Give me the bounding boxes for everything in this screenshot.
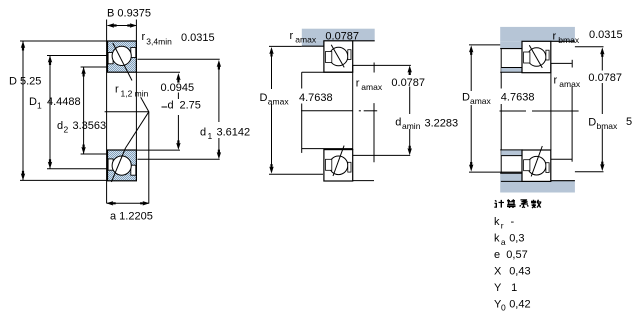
dimension d2 3.3563 (83, 67, 85, 154)
svg-text:3,4min: 3,4min (146, 37, 172, 47)
svg-text:D: D (462, 91, 470, 103)
shaft abutment block top-left (blue) (501, 68, 523, 73)
housing bore line bottom right (353, 180, 374, 182)
left face extension line (106, 20, 108, 204)
svg-text:0.0315: 0.0315 (181, 32, 215, 44)
centerline (middle diagram) (301, 110, 353, 112)
svg-text:4.4488: 4.4488 (47, 96, 81, 108)
dimension D 5.25 (22, 41, 24, 180)
right face / shoulder abutment line (352, 65, 354, 149)
svg-text:amax: amax (470, 96, 492, 106)
svg-text:5: 5 (626, 116, 632, 128)
middle bearing: bottom cross-section (324, 150, 353, 181)
svg-text:0.0787: 0.0787 (325, 30, 359, 42)
shaft shoulder (bottom, right side) (353, 154, 411, 156)
svg-text:0.0945: 0.0945 (161, 82, 195, 94)
svg-text:D: D (29, 96, 37, 108)
middle diagram: housing band (blue) (302, 29, 375, 41)
dimension a 1.2205 (148, 112, 150, 204)
dimension D_amax 4.7638 (right) (469, 44, 500, 46)
svg-text:bmax: bmax (597, 121, 619, 131)
svg-text:X: X (494, 266, 502, 278)
svg-text:0.0315: 0.0315 (589, 29, 623, 41)
shaft seat lines + left break edge (302, 71, 353, 73)
dimension d 2.75 (bore) (136, 71, 180, 73)
shaft shoulder (bottom right side) (551, 158, 572, 160)
svg-text:k: k (494, 216, 500, 228)
dimension B (width) (108, 25, 137, 27)
svg-text:amax: amax (559, 79, 581, 89)
svg-text:amax: amax (295, 35, 317, 45)
svg-text:0,57: 0,57 (506, 249, 527, 261)
right bearing: bottom cross-section (522, 150, 551, 181)
svg-text:d: d (168, 100, 174, 112)
svg-text:3.6142: 3.6142 (217, 127, 251, 139)
svg-text:a 1.2205: a 1.2205 (110, 211, 153, 223)
contact line (right bottom) (531, 146, 542, 176)
svg-text:2.75: 2.75 (180, 100, 201, 112)
shaft shoulder (top, right side) (353, 64, 411, 66)
svg-text:0,43: 0,43 (509, 266, 530, 278)
dimension D_amax 4.7638 (middle) (269, 45, 302, 47)
svg-text:1: 1 (208, 131, 213, 141)
left bearing: bottom cross-section (stippled rings + ball) (108, 150, 137, 181)
svg-text:1: 1 (511, 282, 517, 294)
shaft abutment block bottom-left (blue) (501, 150, 523, 156)
middle bearing: top cross-section (324, 41, 353, 72)
svg-text:B 0.9375: B 0.9375 (107, 8, 151, 20)
housing shoulder bottom edge (302, 45, 324, 47)
svg-text:0,3: 0,3 (509, 233, 524, 245)
shaft shoulder (top right side) (551, 62, 572, 64)
dimension d_amin 3.2283 (408, 66, 412, 76)
centerline (right diagram) (500, 110, 527, 112)
dimension D1 4.4488 (49, 56, 51, 169)
svg-text:amin: amin (402, 121, 421, 131)
centerline axis (left diagram) (105, 111, 150, 113)
contact-angle diagonal (bottom section) (126, 112, 149, 148)
dimension d1 3.6142 (138, 58, 220, 60)
svg-text:r: r (290, 30, 294, 42)
right bearing: top cross-section (522, 41, 551, 72)
dimension D_bmax 5 (575, 46, 604, 48)
svg-text:r: r (356, 78, 360, 90)
svg-text:r: r (115, 84, 119, 96)
right diagram: housing band top (blue) (500, 27, 575, 41)
svg-text:r: r (553, 31, 557, 43)
svg-text:k: k (494, 233, 500, 245)
svg-text:0.0787: 0.0787 (391, 77, 425, 89)
svg-text:d: d (395, 117, 401, 129)
svg-text:4.7638: 4.7638 (501, 91, 535, 103)
svg-text:0.0787: 0.0787 (588, 72, 622, 84)
svg-text:4.7638: 4.7638 (299, 92, 333, 104)
svg-text:D 5.25: D 5.25 (9, 76, 41, 88)
right face / shoulder abutment line (550, 63, 552, 150)
svg-text:D: D (260, 92, 268, 104)
svg-text:-: - (511, 216, 515, 228)
svg-text:bmax: bmax (558, 35, 580, 45)
svg-text:D: D (588, 117, 596, 129)
svg-text:0: 0 (501, 303, 506, 311)
svg-text:2: 2 (64, 125, 69, 135)
right diagram: housing band bottom (blue) (500, 173, 522, 192)
svg-text:r: r (501, 220, 504, 230)
svg-text:a: a (501, 237, 506, 247)
contact-angle diagonal (top section) (113, 43, 132, 81)
svg-text:1,2 min: 1,2 min (121, 89, 149, 99)
table header 计算系数 (calculation factors, drawn strokes) (494, 199, 541, 208)
left bearing: top cross-section (stippled rings + ball) (108, 41, 137, 72)
svg-text:r: r (142, 31, 146, 43)
svg-text:3.2283: 3.2283 (425, 118, 459, 130)
svg-text:d: d (57, 120, 63, 132)
svg-text:0,42: 0,42 (509, 298, 530, 310)
svg-text:amax: amax (268, 97, 290, 107)
svg-text:r: r (554, 75, 558, 87)
svg-text:amax: amax (361, 82, 383, 92)
svg-text:d: d (200, 127, 206, 139)
housing bore line right of bearing (353, 40, 375, 42)
contact line (middle bottom) (333, 146, 344, 176)
right face extension line (135, 20, 137, 151)
svg-text:e: e (494, 249, 500, 261)
svg-text:Y: Y (494, 282, 502, 294)
svg-text:3.3563: 3.3563 (73, 120, 107, 132)
svg-text:1: 1 (37, 101, 42, 111)
abutment sleeve break edge (vertical) (500, 49, 502, 89)
